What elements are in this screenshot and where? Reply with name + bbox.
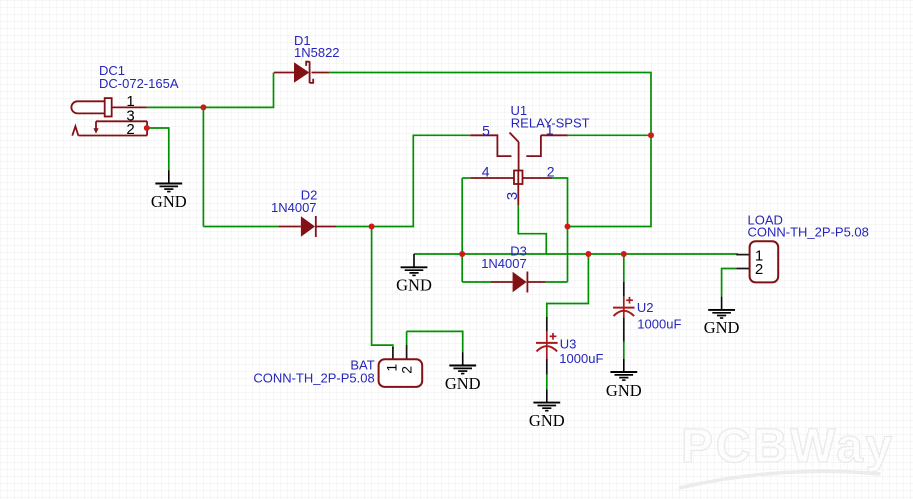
svg-text:GND: GND <box>606 381 642 400</box>
svg-text:GND: GND <box>704 318 740 337</box>
svg-text:2: 2 <box>755 261 763 278</box>
svg-text:2: 2 <box>547 164 555 180</box>
svg-text:GND: GND <box>396 276 432 295</box>
svg-text:U3: U3 <box>560 336 577 351</box>
svg-text:1N4007: 1N4007 <box>271 200 317 215</box>
svg-text:2: 2 <box>126 121 134 138</box>
svg-text:2: 2 <box>398 366 414 374</box>
svg-text:U2: U2 <box>637 300 654 315</box>
svg-text:GND: GND <box>529 411 565 430</box>
svg-text:4: 4 <box>482 164 490 180</box>
svg-text:CONN-TH_2P-P5.08: CONN-TH_2P-P5.08 <box>748 224 869 239</box>
svg-text:3: 3 <box>504 192 521 200</box>
svg-text:5: 5 <box>482 123 490 139</box>
svg-text:DC-072-165A: DC-072-165A <box>99 76 179 91</box>
svg-text:1: 1 <box>383 364 399 372</box>
svg-text:1N5822: 1N5822 <box>294 45 340 60</box>
svg-text:1: 1 <box>546 122 554 138</box>
svg-text:1N4007: 1N4007 <box>481 256 527 271</box>
svg-text:GND: GND <box>445 374 481 393</box>
svg-text:1000uF: 1000uF <box>559 351 603 366</box>
svg-text:1000uF: 1000uF <box>637 316 681 331</box>
svg-text:GND: GND <box>151 192 187 211</box>
svg-text:PCBWay: PCBWay <box>681 420 895 473</box>
svg-text:CONN-TH_2P-P5.08: CONN-TH_2P-P5.08 <box>253 370 374 385</box>
